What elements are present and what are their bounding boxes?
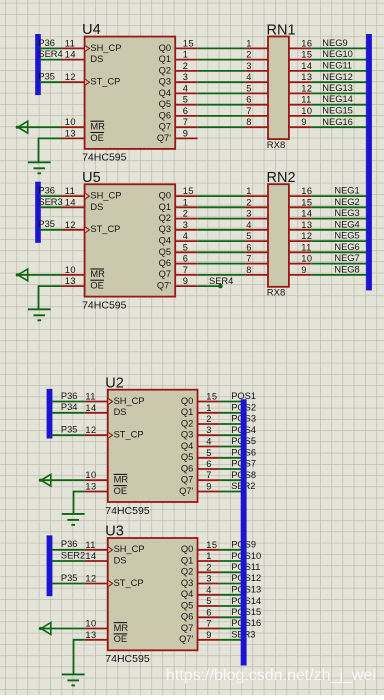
svg-text:16: 16 bbox=[301, 38, 312, 48]
svg-text:Q1: Q1 bbox=[159, 202, 171, 212]
svg-text:10: 10 bbox=[85, 470, 96, 480]
pin 2 (Q2) of U3 bbox=[181, 562, 220, 576]
pin 11 (SH_CP) of U2 bbox=[85, 392, 145, 406]
pin 14 of RN1 bbox=[289, 61, 313, 71]
svg-text:6: 6 bbox=[183, 106, 189, 116]
svg-text:10: 10 bbox=[65, 265, 76, 275]
wire U3 out net POS14 bbox=[220, 605, 244, 607]
wire MR bbox=[18, 126, 62, 128]
pin 7 of RN1 bbox=[245, 106, 268, 116]
svg-text:14: 14 bbox=[65, 197, 76, 207]
svg-text:OE: OE bbox=[114, 486, 127, 496]
svg-text:14: 14 bbox=[65, 50, 76, 60]
svg-text:2: 2 bbox=[183, 61, 189, 71]
svg-text:14: 14 bbox=[301, 61, 312, 71]
svg-text:13: 13 bbox=[65, 276, 76, 286]
svg-text:Q0: Q0 bbox=[181, 396, 193, 406]
svg-text:2: 2 bbox=[206, 414, 212, 424]
svg-text:NEG4: NEG4 bbox=[334, 219, 359, 229]
svg-text:OE: OE bbox=[90, 133, 103, 143]
svg-text:U2: U2 bbox=[105, 375, 124, 391]
svg-text:Q2: Q2 bbox=[159, 65, 171, 75]
svg-text:5: 5 bbox=[246, 231, 252, 241]
wire U3 out net POS12 bbox=[220, 583, 244, 585]
pin 1 (Q1) of U5 bbox=[159, 197, 198, 212]
svg-text:NEG1: NEG1 bbox=[334, 186, 359, 196]
pin 7 (Q7) of U2 bbox=[181, 470, 220, 484]
resistor network RN1 (RX8) body bbox=[267, 23, 296, 151]
svg-text:6: 6 bbox=[246, 95, 252, 105]
svg-text:4: 4 bbox=[206, 437, 212, 447]
svg-text:11: 11 bbox=[65, 186, 75, 196]
svg-text:13: 13 bbox=[301, 220, 312, 230]
pin 15 of RN2 bbox=[289, 197, 313, 207]
pin 8 of RN1 bbox=[245, 117, 268, 127]
svg-text:Q3: Q3 bbox=[181, 578, 193, 588]
wire U2 out net SER2 bbox=[220, 491, 244, 493]
svg-text:1: 1 bbox=[246, 186, 252, 196]
pin 13 (OE) of U2 bbox=[85, 482, 128, 496]
wire RN2 pin 14 to right bus bbox=[311, 218, 369, 220]
bus (middle vertical, POS nets) bbox=[241, 399, 247, 665]
svg-text:NEG3: NEG3 bbox=[334, 208, 359, 218]
svg-text:74HC595: 74HC595 bbox=[105, 653, 150, 665]
pin 1 of RN2 bbox=[245, 186, 268, 196]
svg-text:https://blog.csdn.net/zh_j_wei: https://blog.csdn.net/zh_j_wei bbox=[166, 667, 376, 684]
svg-text:12: 12 bbox=[301, 231, 312, 241]
svg-text:9: 9 bbox=[183, 276, 189, 286]
svg-text:Q0: Q0 bbox=[181, 544, 193, 554]
wire RN2 pin 11 to right bus bbox=[311, 251, 369, 253]
svg-text:NEG9: NEG9 bbox=[322, 38, 347, 48]
wire RN2 pin 16 to right bus bbox=[311, 195, 369, 197]
svg-text:P35: P35 bbox=[38, 72, 55, 82]
svg-text:9: 9 bbox=[301, 265, 307, 275]
wire net SER3 bbox=[40, 206, 62, 208]
svg-text:14: 14 bbox=[85, 551, 96, 561]
wire U5 Q4 to RN2 bbox=[198, 240, 246, 242]
wire RN2 pin 9 to right bus bbox=[311, 274, 369, 276]
pin 4 of RN2 bbox=[245, 220, 268, 230]
pin 1 (Q1) of U2 bbox=[181, 403, 220, 417]
svg-text:RX8: RX8 bbox=[267, 288, 285, 299]
svg-text:Q4: Q4 bbox=[181, 589, 193, 599]
svg-text:SER3: SER3 bbox=[38, 197, 62, 207]
wire U4 Q1 to RN1 bbox=[198, 59, 246, 61]
svg-text:OE: OE bbox=[114, 634, 127, 644]
svg-text:P36: P36 bbox=[38, 186, 55, 196]
svg-text:Q7: Q7 bbox=[181, 475, 193, 485]
svg-text:10: 10 bbox=[301, 254, 312, 264]
pin 14 (DS) of U3 bbox=[85, 551, 127, 565]
svg-text:3: 3 bbox=[246, 61, 252, 71]
pin 8 of RN2 bbox=[245, 265, 268, 275]
svg-text:Q5: Q5 bbox=[159, 247, 171, 257]
pin 12 (ST_CP) of U3 bbox=[85, 574, 144, 588]
svg-text:6: 6 bbox=[206, 607, 212, 617]
shift register U2 (74HC595) body bbox=[105, 375, 197, 517]
wire RN1 pin 13 to right bus bbox=[311, 81, 369, 83]
svg-text:7: 7 bbox=[246, 106, 252, 116]
svg-text:NEG8: NEG8 bbox=[334, 265, 359, 275]
svg-text:1: 1 bbox=[206, 551, 212, 561]
svg-text:ST_CP: ST_CP bbox=[90, 77, 120, 87]
junction SER4 bbox=[218, 284, 223, 289]
svg-text:74HC595: 74HC595 bbox=[82, 152, 127, 164]
svg-text:RX8: RX8 bbox=[267, 140, 285, 151]
svg-text:Q2: Q2 bbox=[181, 567, 193, 577]
svg-text:Q7: Q7 bbox=[181, 623, 193, 633]
wire net P36 bbox=[52, 549, 85, 551]
svg-text:9: 9 bbox=[206, 630, 212, 640]
wire U2 out net POS8 bbox=[220, 479, 244, 481]
pin 4 (Q4) of U3 bbox=[181, 585, 220, 599]
wire U2 out net POS4 bbox=[220, 434, 244, 436]
svg-text:Q7': Q7' bbox=[157, 133, 171, 143]
wire U4 Q6 to RN1 bbox=[198, 115, 246, 117]
wire U5 Q7' net SER4 bbox=[198, 285, 221, 287]
svg-text:7: 7 bbox=[206, 470, 212, 480]
pin 15 of RN1 bbox=[289, 50, 313, 60]
wire U3 out net POS9 bbox=[220, 549, 244, 551]
pin 11 (SH_CP) of U3 bbox=[85, 540, 145, 554]
pin 11 (SH_CP) of U4 bbox=[62, 38, 122, 52]
pin 13 (OE) of U4 bbox=[62, 128, 105, 142]
svg-text:12: 12 bbox=[65, 72, 76, 82]
svg-text:6: 6 bbox=[183, 254, 189, 264]
pin 2 (Q2) of U5 bbox=[159, 209, 198, 223]
svg-text:SH_CP: SH_CP bbox=[114, 396, 145, 406]
svg-text:SER4: SER4 bbox=[209, 276, 233, 286]
svg-text:Q3: Q3 bbox=[181, 430, 193, 440]
wire U2 out net POS5 bbox=[220, 446, 244, 448]
pin 6 of RN1 bbox=[245, 95, 268, 105]
svg-text:RN1: RN1 bbox=[267, 23, 296, 39]
svg-text:DS: DS bbox=[114, 555, 127, 565]
svg-text:1: 1 bbox=[206, 403, 212, 413]
svg-text:NEG14: NEG14 bbox=[322, 94, 353, 104]
wire U4 Q5 to RN1 bbox=[198, 104, 246, 106]
svg-text:DS: DS bbox=[90, 202, 103, 212]
svg-text:7: 7 bbox=[183, 265, 189, 275]
svg-text:15: 15 bbox=[183, 38, 194, 48]
svg-text:2: 2 bbox=[183, 209, 189, 219]
svg-text:MR: MR bbox=[90, 269, 105, 279]
wire U5 Q2 to RN2 bbox=[198, 218, 246, 220]
svg-text:16: 16 bbox=[301, 186, 312, 196]
pin 10 of RN1 bbox=[289, 106, 313, 116]
svg-text:Q7': Q7' bbox=[179, 634, 193, 644]
svg-text:Q3: Q3 bbox=[159, 224, 171, 234]
wire RN1 pin 11 to right bus bbox=[311, 104, 369, 106]
svg-text:9: 9 bbox=[206, 482, 212, 492]
pin 12 (ST_CP) of U4 bbox=[62, 72, 121, 86]
pin 11 (SH_CP) of U5 bbox=[62, 186, 122, 200]
pin 10 of RN2 bbox=[289, 254, 313, 264]
svg-text:4: 4 bbox=[246, 72, 252, 82]
pin 10 (MR) of U2 bbox=[85, 470, 129, 484]
pin 14 of RN2 bbox=[289, 209, 313, 219]
svg-text:2: 2 bbox=[246, 197, 252, 207]
shift register U3 (74HC595) body bbox=[105, 524, 197, 666]
wire net SER4 bbox=[40, 59, 62, 61]
wire U2 out net POS6 bbox=[220, 457, 244, 459]
pin 3 of RN2 bbox=[245, 209, 268, 219]
svg-text:7: 7 bbox=[183, 117, 189, 127]
svg-text:OE: OE bbox=[90, 281, 103, 291]
svg-text:Q1: Q1 bbox=[181, 555, 193, 565]
svg-text:SER4: SER4 bbox=[38, 49, 62, 59]
pin 6 (Q6) of U3 bbox=[181, 607, 220, 621]
svg-text:11: 11 bbox=[85, 540, 95, 550]
wire U4 Q4 to RN1 bbox=[198, 92, 246, 94]
svg-text:Q4: Q4 bbox=[159, 88, 171, 98]
wire U2 out net POS1 bbox=[220, 401, 244, 403]
svg-text:11: 11 bbox=[85, 392, 95, 402]
pin 3 (Q3) of U5 bbox=[159, 220, 198, 234]
svg-text:13: 13 bbox=[85, 482, 96, 492]
input terminal arrow (MR net) bbox=[16, 269, 28, 281]
wire RN2 pin 10 to right bus bbox=[311, 263, 369, 265]
svg-text:Q7: Q7 bbox=[159, 269, 171, 279]
pin 10 (MR) of U5 bbox=[62, 265, 106, 279]
svg-text:74HC595: 74HC595 bbox=[105, 505, 150, 517]
svg-text:9: 9 bbox=[183, 128, 189, 138]
svg-text:MR: MR bbox=[90, 122, 105, 132]
svg-text:NEG5: NEG5 bbox=[334, 231, 359, 241]
wire MR bbox=[41, 628, 85, 630]
svg-text:NEG11: NEG11 bbox=[322, 61, 352, 71]
svg-text:11: 11 bbox=[301, 242, 311, 252]
svg-text:MR: MR bbox=[114, 475, 129, 485]
input terminal arrow (MR net) bbox=[39, 623, 51, 635]
ground bbox=[62, 674, 85, 685]
pin 3 of RN1 bbox=[245, 61, 268, 71]
pin 16 of RN1 bbox=[289, 38, 313, 48]
svg-text:P34: P34 bbox=[61, 402, 78, 412]
pin 13 (OE) of U5 bbox=[62, 276, 105, 290]
bus (left vertical) bbox=[35, 34, 41, 95]
pin 15 (Q0) of U2 bbox=[181, 392, 220, 406]
svg-text:NEG13: NEG13 bbox=[322, 83, 353, 93]
svg-text:8: 8 bbox=[246, 265, 252, 275]
svg-text:11: 11 bbox=[301, 95, 311, 105]
svg-text:SH_CP: SH_CP bbox=[90, 191, 121, 201]
pin 7 of RN2 bbox=[245, 254, 268, 264]
svg-text:10: 10 bbox=[65, 117, 76, 127]
svg-text:Q7': Q7' bbox=[157, 281, 171, 291]
svg-text:2: 2 bbox=[206, 562, 212, 572]
pin 4 (Q4) of U5 bbox=[159, 231, 198, 245]
svg-text:8: 8 bbox=[246, 117, 252, 127]
wire U5 Q1 to RN2 bbox=[198, 206, 246, 208]
pin 6 (Q6) of U4 bbox=[159, 106, 198, 120]
svg-text:Q0: Q0 bbox=[159, 191, 171, 201]
svg-text:DS: DS bbox=[90, 54, 103, 64]
bus (right vertical, NEG nets) bbox=[366, 34, 372, 290]
pin 15 (Q0) of U5 bbox=[159, 186, 198, 200]
svg-text:15: 15 bbox=[301, 50, 312, 60]
wire OE to ground bbox=[74, 640, 85, 675]
svg-text:Q2: Q2 bbox=[159, 213, 171, 223]
pin 13 of RN2 bbox=[289, 220, 313, 230]
svg-text:NEG7: NEG7 bbox=[334, 253, 359, 263]
pin 16 of RN2 bbox=[289, 186, 313, 196]
wire RN1 pin 9 to right bus bbox=[311, 126, 369, 128]
svg-text:P35: P35 bbox=[61, 573, 78, 583]
wire RN1 pin 10 to right bus bbox=[311, 115, 369, 117]
svg-text:Q4: Q4 bbox=[159, 236, 171, 246]
svg-text:15: 15 bbox=[183, 186, 194, 196]
svg-text:3: 3 bbox=[246, 209, 252, 219]
wire U5 Q7 to RN2 bbox=[198, 274, 246, 276]
svg-text:14: 14 bbox=[85, 403, 96, 413]
pin 1 of RN1 bbox=[245, 38, 268, 48]
svg-text:14: 14 bbox=[301, 209, 312, 219]
wire U2 out net POS3 bbox=[220, 423, 244, 425]
wire OE to ground bbox=[39, 286, 62, 309]
wire net P35 bbox=[52, 434, 85, 436]
svg-text:Q0: Q0 bbox=[159, 43, 171, 53]
pin 11 of RN2 bbox=[289, 242, 312, 252]
wire net P36 bbox=[40, 195, 62, 197]
ground bbox=[28, 309, 51, 320]
bus (left vertical) bbox=[35, 182, 41, 243]
svg-text:12: 12 bbox=[65, 220, 76, 230]
pin 6 (Q6) of U2 bbox=[181, 459, 220, 473]
wire RN1 pin 16 to right bus bbox=[311, 47, 369, 49]
svg-text:NEG6: NEG6 bbox=[334, 242, 359, 252]
pin 5 (Q5) of U2 bbox=[181, 448, 220, 462]
svg-text:7: 7 bbox=[246, 254, 252, 264]
svg-text:Q3: Q3 bbox=[159, 77, 171, 87]
svg-text:ST_CP: ST_CP bbox=[114, 430, 144, 440]
pin 5 of RN2 bbox=[245, 231, 268, 241]
pin 9 (Q7') of U5 bbox=[157, 276, 198, 290]
wire U3 out net POS16 bbox=[220, 628, 244, 630]
pin 14 (DS) of U2 bbox=[85, 403, 127, 417]
svg-text:Q6: Q6 bbox=[159, 110, 171, 120]
shift register U5 (74HC595) body bbox=[82, 170, 175, 312]
pin 4 (Q4) of U4 bbox=[159, 83, 198, 97]
svg-text:Q7: Q7 bbox=[159, 122, 171, 132]
svg-text:Q5: Q5 bbox=[181, 452, 193, 462]
input terminal arrow (MR net) bbox=[39, 474, 51, 486]
svg-text:13: 13 bbox=[85, 630, 96, 640]
pin 9 (Q7') of U4 bbox=[157, 128, 198, 142]
svg-text:Q1: Q1 bbox=[181, 407, 193, 417]
svg-text:Q5: Q5 bbox=[159, 99, 171, 109]
pin 13 of RN1 bbox=[289, 72, 313, 82]
svg-text:7: 7 bbox=[206, 619, 212, 629]
wire U2 out net POS2 bbox=[220, 412, 244, 414]
pin 4 (Q4) of U2 bbox=[181, 437, 220, 451]
pin 15 (Q0) of U3 bbox=[181, 540, 220, 554]
svg-text:10: 10 bbox=[301, 106, 312, 116]
pin 7 (Q7) of U4 bbox=[159, 117, 198, 131]
svg-text:P35: P35 bbox=[38, 219, 55, 229]
svg-text:RN2: RN2 bbox=[267, 170, 296, 186]
wire RN1 pin 12 to right bus bbox=[311, 92, 369, 94]
pin 14 (DS) of U5 bbox=[62, 197, 104, 212]
wire U3 out net POS13 bbox=[220, 594, 244, 596]
svg-text:SH_CP: SH_CP bbox=[114, 544, 145, 554]
wire MR bbox=[41, 479, 85, 481]
svg-text:3: 3 bbox=[183, 220, 189, 230]
svg-text:Q7': Q7' bbox=[179, 486, 193, 496]
wire U3 out net SER3 bbox=[220, 639, 244, 641]
svg-text:5: 5 bbox=[206, 596, 212, 606]
svg-text:3: 3 bbox=[206, 574, 212, 584]
svg-text:DS: DS bbox=[114, 407, 127, 417]
svg-text:4: 4 bbox=[246, 220, 252, 230]
svg-text:6: 6 bbox=[246, 242, 252, 252]
svg-text:P35: P35 bbox=[61, 425, 78, 435]
pin 3 (Q3) of U2 bbox=[181, 425, 220, 439]
pin 5 of RN1 bbox=[245, 83, 268, 93]
svg-text:Q1: Q1 bbox=[159, 54, 171, 64]
svg-text:15: 15 bbox=[206, 392, 217, 402]
wire U5 Q3 to RN2 bbox=[198, 229, 246, 231]
svg-text:5: 5 bbox=[206, 448, 212, 458]
wire net SER2 bbox=[52, 560, 85, 562]
pin 3 (Q3) of U3 bbox=[181, 574, 220, 588]
pin 6 (Q6) of U5 bbox=[159, 254, 198, 268]
pin 4 of RN1 bbox=[245, 72, 268, 82]
resistor network RN2 (RX8) body bbox=[267, 170, 296, 298]
svg-text:1: 1 bbox=[183, 197, 189, 207]
pin 10 (MR) of U4 bbox=[62, 117, 106, 131]
pin 9 (Q7') of U2 bbox=[179, 482, 220, 496]
svg-text:5: 5 bbox=[183, 242, 189, 252]
svg-text:Q6: Q6 bbox=[159, 258, 171, 268]
svg-text:10: 10 bbox=[85, 619, 96, 629]
svg-text:13: 13 bbox=[65, 128, 76, 138]
pin 5 (Q5) of U5 bbox=[159, 242, 198, 256]
svg-text:U3: U3 bbox=[105, 524, 124, 540]
wire U5 Q5 to RN2 bbox=[198, 251, 246, 253]
wire RN1 pin 15 to right bus bbox=[311, 59, 369, 61]
svg-text:12: 12 bbox=[301, 83, 312, 93]
shift register U4 (74HC595) body bbox=[82, 22, 175, 164]
bus (left vertical) bbox=[47, 535, 53, 596]
svg-text:P36: P36 bbox=[38, 38, 55, 48]
svg-text:3: 3 bbox=[183, 72, 189, 82]
wire U5 Q6 to RN2 bbox=[198, 263, 246, 265]
pin 2 (Q2) of U2 bbox=[181, 414, 220, 428]
wire net P35 bbox=[40, 229, 62, 231]
svg-text:P36: P36 bbox=[61, 391, 78, 401]
wire U2 out net POS7 bbox=[220, 468, 244, 470]
svg-text:NEG10: NEG10 bbox=[322, 49, 353, 59]
pin 9 of RN1 bbox=[289, 117, 311, 127]
wire U4 Q7 to RN1 bbox=[198, 126, 246, 128]
pin 5 (Q5) of U3 bbox=[181, 596, 220, 610]
wire U3 out net POS11 bbox=[220, 571, 244, 573]
wire OE to ground bbox=[74, 492, 85, 514]
svg-text:P36: P36 bbox=[61, 539, 78, 549]
svg-text:Q4: Q4 bbox=[181, 441, 193, 451]
svg-text:5: 5 bbox=[246, 83, 252, 93]
svg-text:12: 12 bbox=[85, 425, 96, 435]
wire RN1 pin 14 to right bus bbox=[311, 70, 369, 72]
pin 10 (MR) of U3 bbox=[85, 619, 129, 633]
pin 2 of RN2 bbox=[245, 197, 268, 207]
svg-text:74HC595: 74HC595 bbox=[82, 299, 127, 311]
wire MR bbox=[18, 274, 62, 276]
pin 6 of RN2 bbox=[245, 242, 268, 252]
wire RN2 pin 13 to right bus bbox=[311, 229, 369, 231]
